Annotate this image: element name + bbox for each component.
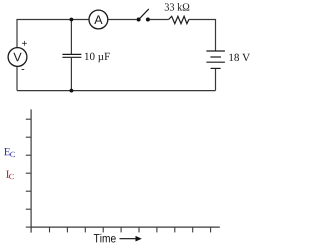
label I_C: [6, 171, 9, 178]
label 18 V: [229, 54, 250, 61]
wire switch to resistor: [150, 19, 169, 21]
battery 18 V: [206, 51, 225, 68]
resistor R 33 kΩ: [169, 16, 189, 23]
wire top to capacitor: [70, 20, 72, 55]
wire battery bottom to corner: [215, 69, 217, 91]
wire capacitor to bottom: [70, 58, 72, 91]
vertical axis ticks: [26, 119, 31, 227]
switch (open): [137, 9, 150, 22]
label 10 µF: [85, 53, 110, 63]
wire resistor to battery top: [189, 20, 216, 51]
ammeter A: [89, 10, 108, 29]
label 33 kΩ: [165, 3, 189, 11]
wire ammeter to switch: [108, 19, 137, 21]
label Time: [94, 234, 116, 243]
bottom wire: [17, 90, 216, 92]
capacitor C 10 µF: [62, 54, 81, 57]
horizontal axis ticks: [50, 227, 211, 232]
wire top left segment: [17, 20, 89, 48]
wire voltmeter to bottom: [16, 66, 18, 90]
voltmeter V: [8, 48, 27, 67]
graph horizontal axis: [31, 226, 220, 228]
label + polarity: [22, 41, 27, 46]
time axis arrow: [120, 236, 142, 242]
graph vertical axis: [30, 109, 32, 232]
junction node top: [70, 18, 74, 22]
junction node bottom: [70, 89, 74, 93]
label E_C: [4, 148, 10, 155]
label - polarity: [22, 68, 25, 71]
